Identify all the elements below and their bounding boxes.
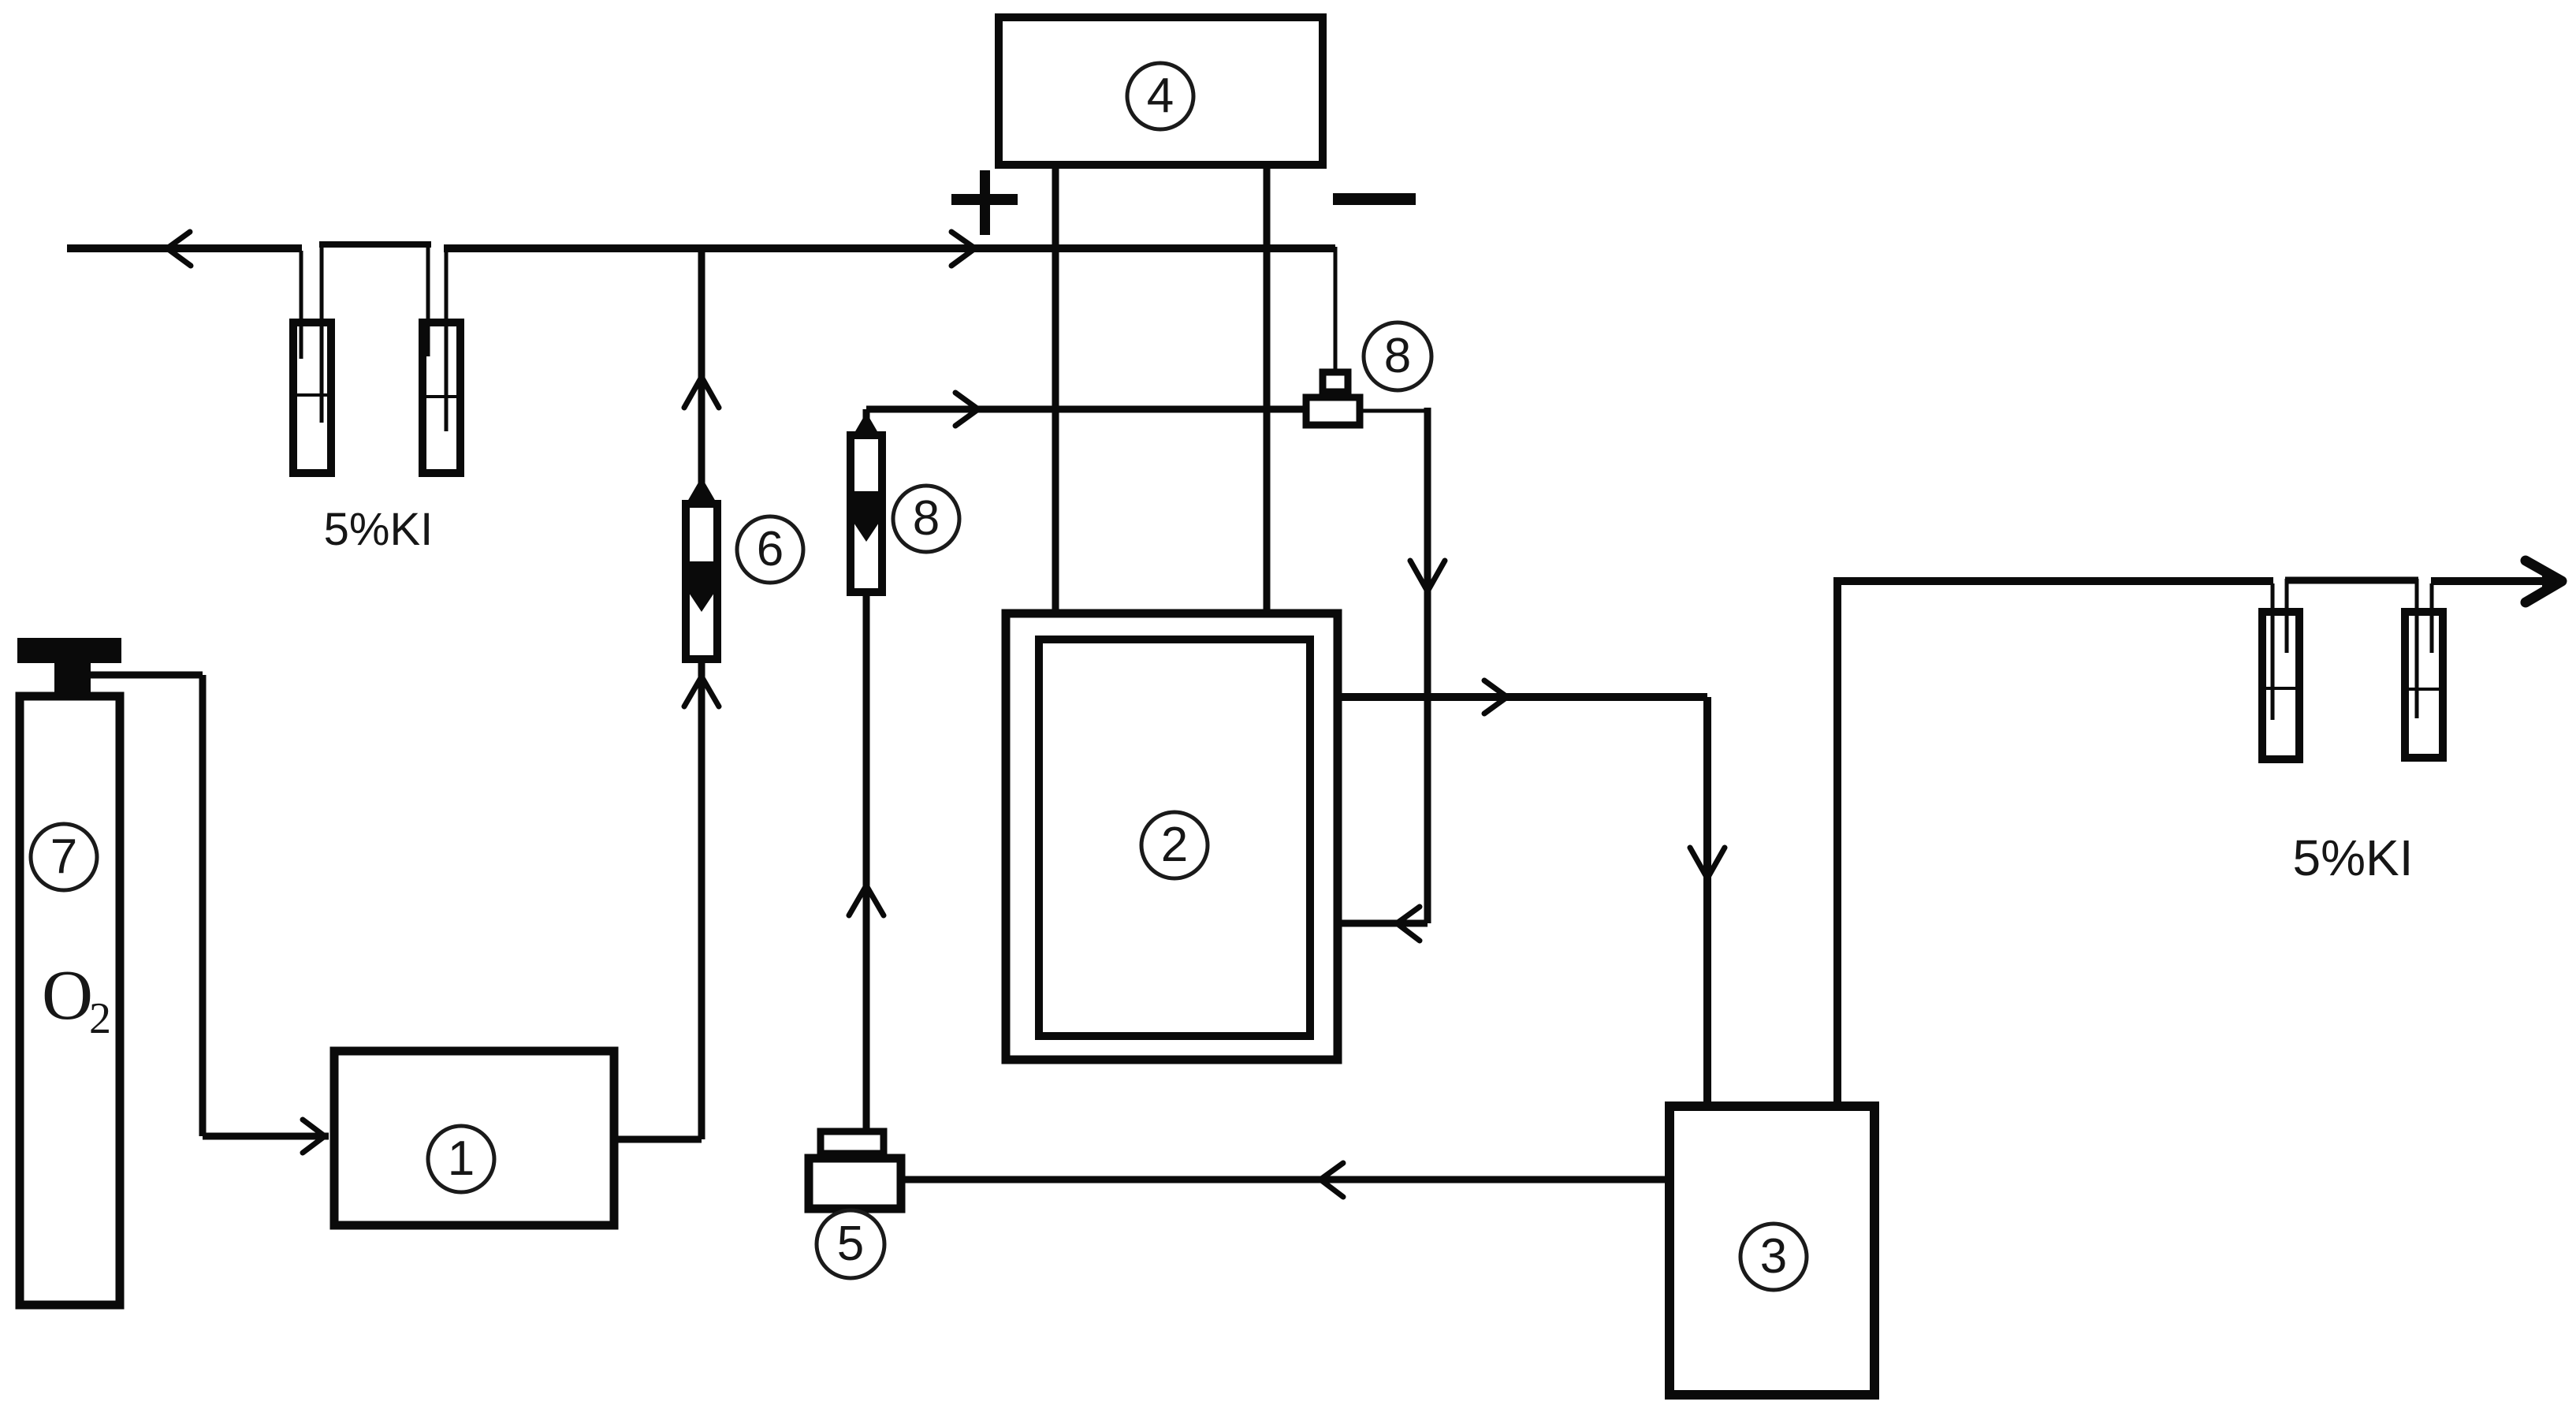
arrow: left into cell 2 return [1397,907,1420,941]
wire: riser from box 3 up to outlet header [1833,581,1841,1103]
svg-text:5%KI: 5%KI [2293,829,2414,886]
svg-text:4: 4 [1147,69,1174,123]
arrow: exhaust left [167,232,191,266]
label circle 1 [428,1126,494,1192]
sensor 8 top square [1323,372,1348,392]
pump 5 body [809,1158,901,1209]
tube 1 deep dip tube [320,243,324,423]
washing bottle tube 2 (left pair) [423,322,460,473]
wire: jumper between washing bottles 1 and 2 [319,241,431,248]
wire: return into cell 2 [1342,920,1428,927]
arrow: right on ozone outlet [1484,680,1507,714]
svg-text:5: 5 [837,1217,864,1271]
arrow: up on pump riser to flowmeter 8 [849,885,884,915]
washing bottle tube 4 (right pair) [2405,612,2443,758]
arrow: right on line to sensor 8 [955,393,978,426]
arrow: down into box 3 [1690,848,1725,878]
wire: final exit line [2431,577,2554,585]
tube 2 deep dip tube [445,251,449,431]
wire: jumper between washing bottles 3 and 4 [2285,577,2418,584]
svg-text:1: 1 [448,1131,475,1186]
flowmeter 6 body [686,504,717,659]
tube 1 inlet dip tube [300,251,303,359]
cylinder valve stem [54,663,91,695]
wire: thin link right of sensor 8 [1363,409,1428,413]
tube 4 liquid level [2404,688,2444,691]
wire: main exhaust line (top left segment) [67,244,302,252]
arrow: riser up above flowmeter 6 [684,377,719,408]
wire: ozone outlet from cell 2 to box 3 [1342,697,1707,1103]
flowmeter 6 top cone [687,477,716,501]
plus terminal symbol [951,170,1018,235]
svg-text:3: 3 [1760,1229,1787,1284]
label circle 4 [1127,63,1193,129]
wire: outlet header to washing bottle 3 [1833,577,2273,585]
wire: electrode lead negative (right) [1264,169,1271,609]
tube 3 deep dip tube [2271,583,2275,720]
box 3 [1670,1106,1874,1395]
arrow: left from box 3 to pump 5 [1320,1163,1343,1197]
tube 2 shallow dip tube [426,243,430,356]
tube 3 shallow dip tube [2285,579,2289,653]
arrow: main line rightward [951,232,975,266]
wire: electrode lead positive (left) [1052,169,1059,609]
label circle 6 [737,516,803,583]
svg-text:8: 8 [913,491,940,546]
label circle 8 left [893,486,959,552]
wire: line from flowmeter 8 top to sensor 8 [866,409,1303,432]
wire: main top line from junction to electrolyzer area [444,244,1335,252]
wire: riser below flowmeter 6 to box1 outlet [698,661,705,1139]
wire: box1 right connection [618,1136,702,1143]
svg-text:5%KI: 5%KI [324,504,434,555]
flowmeter 8 top cone [852,412,880,437]
label circle 8 right [1364,322,1431,390]
box 2: electrolytic cell outer wall [1006,613,1338,1060]
wire: thin drop from top line to sensor 8 [1334,247,1338,371]
label circle 7 [31,824,97,890]
arrow: riser up below flowmeter 6 [684,677,719,706]
washing bottle tube 1 (left pair) [293,322,331,473]
cylinder valve handwheel [17,638,121,663]
pump 5 cap [821,1131,884,1154]
sensor 8 body [1306,397,1360,425]
flowmeter 8 float [854,491,879,542]
wire: cylinder valve outlet down to box1 inlet [88,675,329,1136]
svg-text:6: 6 [757,522,784,576]
arrow: final exit right [2526,561,2562,602]
wire: drop from flowmeter 8 down to pump 5 [863,593,870,1130]
tube 4 shallow dip tube [2430,583,2434,653]
arrow: right into box 1 [303,1120,325,1153]
oxygen cylinder 7 body [20,696,120,1305]
flowmeter 6 float [689,561,714,612]
tube 4 deep dip tube [2415,579,2419,718]
label circle 2 [1141,812,1208,878]
label circle 5 [817,1210,884,1278]
box 4: power supply [999,17,1323,165]
wire: line from box 3 to pump 5 [903,1176,1666,1183]
minus terminal symbol [1333,193,1416,205]
tube 2 liquid level [422,395,461,398]
wire: oxygen riser from junction down to flowmeter 6 [698,247,705,505]
tube 3 liquid level [2261,687,2300,690]
svg-text:2: 2 [1161,818,1188,872]
washing bottle tube 3 (right pair) [2262,612,2299,759]
box 1 [334,1051,614,1225]
label circle 3 [1740,1224,1807,1290]
svg-text:7: 7 [50,829,77,884]
arrow: down on recycle downcomer [1410,561,1445,591]
tube 1 liquid level [292,393,332,397]
box 2: electrolytic cell inner wall [1039,639,1310,1036]
flowmeter 8 body [851,435,882,592]
wire: recycle downcomer right of cell [1424,408,1431,923]
svg-text:8: 8 [1384,329,1411,383]
